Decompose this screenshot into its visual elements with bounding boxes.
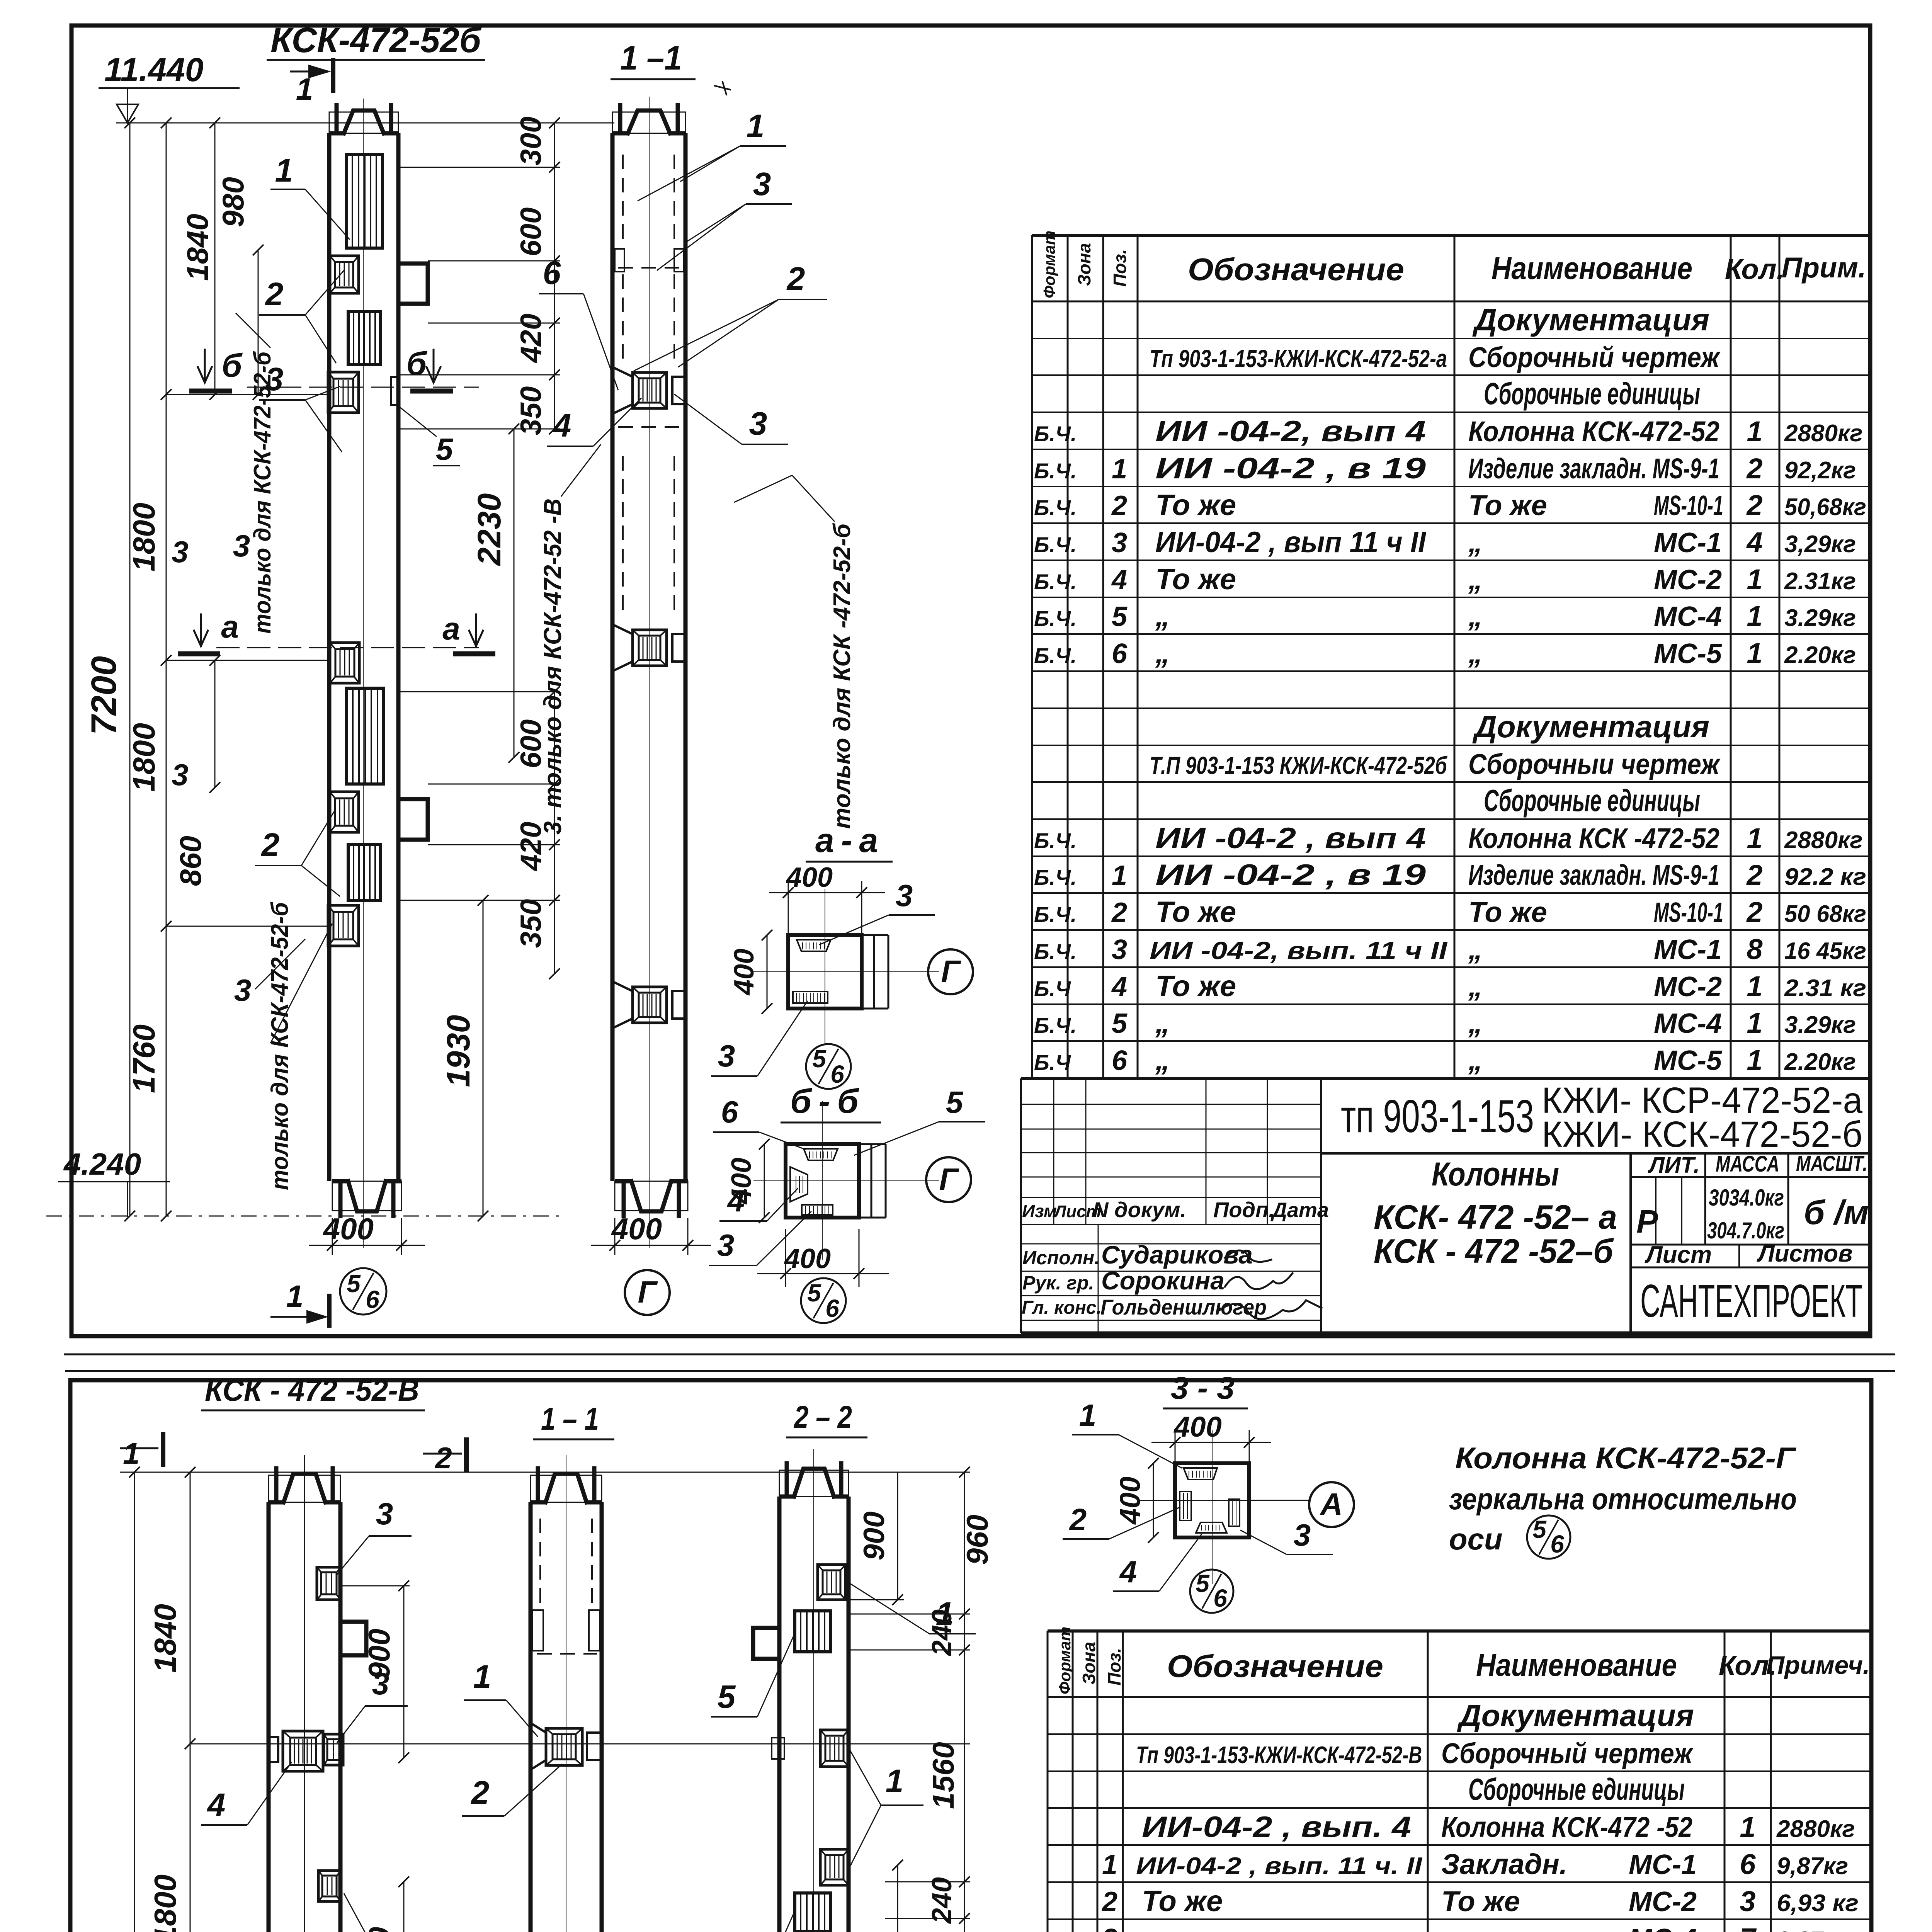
svg-text:Б.Ч.: Б.Ч. [1034,902,1077,927]
svg-text:9,87кг: 9,87кг [1777,1853,1848,1879]
svg-text:1: 1 [1747,563,1762,595]
svg-text:ИИ-04-2 , вып. 11 ч. II: ИИ-04-2 , вып. 11 ч. II [1136,1853,1423,1879]
section b-b square [786,1144,859,1218]
svg-text:2880кг: 2880кг [1784,827,1862,854]
plate pos5 hatched r1 [795,1611,831,1652]
embed plate MC pos3 level a [330,643,359,683]
svg-text:3 - 3: 3 - 3 [1171,1371,1235,1406]
svg-text:6,93 кг: 6,93 кг [1777,1890,1859,1917]
svg-text:Б.Ч.: Б.Ч. [1034,459,1077,483]
embed plate MS-9-1 pos1 lower [347,688,384,784]
hidden plate edges dashed mid [622,456,624,618]
svg-text:Наименование: Наименование [1492,251,1692,286]
svg-text:1: 1 [275,152,293,189]
svg-text:Б.Ч.: Б.Ч. [1034,828,1077,853]
svg-text:2: 2 [1069,1502,1087,1537]
svg-text:304.7.0кг: 304.7.0кг [1707,1218,1784,1243]
svg-text:2: 2 [1101,1886,1117,1917]
svg-text:„: „ [1155,637,1170,670]
svg-text:2230: 2230 [471,493,507,566]
svg-text:3. только для КСК-472-52 -В: 3. только для КСК-472-52 -В [539,498,566,835]
svg-text:Тп 903-1-153-КЖИ-КСК-472-52-В: Тп 903-1-153-КЖИ-КСК-472-52-В [1136,1742,1422,1769]
circle G b-b [926,1157,971,1202]
svg-text:420: 420 [515,314,548,364]
left dashed nick col3 [772,1738,784,1759]
svg-text:МС-5: МС-5 [1654,1045,1722,1076]
svg-text:900: 900 [858,1512,891,1561]
svg-text:Изделие закладн. MS-9-1: Изделие закладн. MS-9-1 [1468,859,1719,891]
svg-text:N докум.: N докум. [1093,1197,1186,1222]
list row [1738,1245,1740,1267]
column V centerline [304,1455,305,1932]
dim 400 3-3 left [1153,1463,1154,1537]
specification table sheet1 [1032,234,1870,237]
svg-text:6: 6 [1112,638,1128,669]
svg-text:МС-4: МС-4 [1654,601,1722,632]
embed plate pos2b upper [348,311,381,364]
svg-text:Исполн.: Исполн. [1022,1247,1100,1269]
svg-text:3: 3 [172,758,188,792]
svg-text:5: 5 [1112,1008,1128,1039]
circle 5/6 below column1 [340,1268,386,1315]
svg-text:ИИ -04-2 , в 19: ИИ -04-2 , в 19 [1155,859,1426,891]
svg-text:„: „ [1468,563,1483,595]
dim 980 [258,250,259,395]
svg-text:То же: То же [1155,489,1236,522]
svg-text:1: 1 [1112,454,1127,485]
svg-text:MS-10-1: MS-10-1 [1654,490,1723,521]
svg-text:Р: Р [1636,1203,1658,1240]
dim chain 1840-1800-1800-1760 sheet1 [166,123,167,1216]
dim chain right of column1 lower 600-420-350 [554,692,555,974]
dim 400 b-b left [764,1144,765,1218]
a-a hatched strip bottom left [793,992,828,1003]
svg-text:1: 1 [1747,415,1762,447]
svg-text:САНТЕХПРОЕКТ: САНТЕХПРОЕКТ [1640,1275,1862,1327]
3-3 hatched strip top [1184,1468,1217,1480]
svg-text:1: 1 [1112,860,1127,891]
svg-text:А: А [1320,1487,1343,1521]
svg-text:Обозначение: Обозначение [1188,252,1404,287]
plate level1 col2 s2 [531,1723,546,1770]
svg-text:3: 3 [718,1039,735,1073]
svg-text:2.31 кг: 2.31 кг [1784,975,1866,1002]
svg-text:Сборочныи чертеж: Сборочныи чертеж [1468,748,1721,780]
svg-text:1: 1 [473,1658,492,1695]
svg-text:Сборочный чертеж: Сборочный чертеж [1468,341,1721,373]
specification table sheet2 [1048,1629,1870,1633]
svg-text:„: „ [1155,600,1170,633]
svg-text:2: 2 [1111,897,1127,928]
plate right r1 col3 [818,1565,845,1600]
svg-text:1: 1 [123,1436,139,1470]
svg-text:1: 1 [1747,1044,1762,1076]
svg-text:3: 3 [233,529,250,563]
svg-text:Примеч.: Примеч. [1766,1651,1870,1679]
svg-text:400: 400 [323,1212,374,1246]
svg-text:То же: То же [1468,896,1547,928]
svg-text:Б.Ч.: Б.Ч. [1034,1013,1077,1037]
svg-text:5: 5 [807,1279,821,1307]
svg-text:1: 1 [1747,1007,1762,1039]
svg-text:6: 6 [1213,1584,1227,1612]
circle 5/6 between sections [806,1044,851,1089]
column V body [267,1502,271,1932]
svg-text:То же: То же [1155,563,1236,596]
leader 5 [398,406,437,437]
svg-text:Дата: Дата [1270,1199,1329,1222]
svg-text:МАССА: МАССА [1716,1151,1779,1177]
svg-text:2: 2 [1746,896,1762,928]
dim 400 a-a left [767,935,768,1009]
hidden plate edges dashed upper [622,155,624,247]
embed plate MS-10-1 pos2 upper [330,256,359,293]
b-b hatched strip bottom [802,1205,833,1215]
plate pos3 mid1 [318,1871,341,1901]
svg-text:6: 6 [825,1294,839,1322]
circle 5/6 3-3 [1190,1570,1233,1613]
svg-text:50,68кг: 50,68кг [1784,494,1866,520]
svg-text:ЛИТ.: ЛИТ. [1648,1153,1700,1178]
svg-text:Сборочные единицы: Сборочные единицы [1484,376,1700,411]
svg-text:МС-4: МС-4 [1654,1008,1722,1039]
svg-text:КЖИ- КСК-472-52-б: КЖИ- КСК-472-52-б [1542,1114,1862,1155]
svg-text:2: 2 [261,827,280,863]
svg-text:а: а [221,609,239,645]
svg-text:Б.Ч.: Б.Ч. [1034,939,1077,964]
svg-text:Листов: Листов [1757,1240,1853,1267]
svg-text:МС-1: МС-1 [1654,527,1722,558]
svg-text:92.2 кг: 92.2 кг [1784,864,1866,890]
svg-text:1560: 1560 [926,1742,960,1809]
dim 400 3-3 top [1175,1430,1176,1463]
svg-text:Сборочный чертеж: Сборочный чертеж [1441,1737,1694,1769]
svg-text:1930: 1930 [440,1015,476,1087]
svg-text:2: 2 [471,1774,490,1811]
svg-text:То же: То же [1155,970,1236,1003]
svg-text:„: „ [1468,637,1483,669]
svg-text:2: 2 [265,276,284,312]
svg-text:5: 5 [1196,1570,1210,1597]
embed plate MC pos3 lower2 [328,905,359,946]
svg-text:3: 3 [1740,1885,1755,1917]
svg-text:1: 1 [1079,1398,1097,1432]
svg-text:3: 3 [376,1497,393,1531]
svg-text:„: „ [1155,1044,1170,1077]
plate with side brackets level b [612,367,633,414]
svg-text:1 – 1: 1 – 1 [541,1401,599,1437]
column cap [329,112,398,133]
svg-text:3: 3 [1102,1923,1117,1932]
console notch right upper [398,264,428,304]
plate with side brackets lower [612,981,633,1028]
svg-text:3: 3 [753,166,771,202]
svg-text:5: 5 [1532,1515,1547,1543]
svg-text:только для КСК-472-52-б: только для КСК-472-52-б [267,901,293,1190]
nick pos5 on right edge [391,377,398,405]
svg-text:а-а: а-а [815,821,885,859]
svg-text:Подп.: Подп. [1213,1197,1275,1222]
svg-text:„: „ [1468,1044,1483,1076]
svg-text:2: 2 [1746,452,1762,485]
svg-text:5: 5 [812,1045,827,1073]
svg-text:240: 240 [927,1877,957,1924]
dim 1930 between columns [483,900,484,1216]
svg-text:Б.Ч.: Б.Ч. [1034,532,1077,557]
svg-text:9,87кг: 9,87кг [1777,1927,1848,1932]
svg-text:3: 3 [749,405,767,442]
svg-text:б: б [406,345,428,382]
column 1-1 s2 centerline [566,1455,566,1932]
svg-text:ИИ -04-2 , вып 4: ИИ -04-2 , вып 4 [1155,822,1426,855]
svg-text:—— „ ——: —— „ —— [1141,1922,1291,1932]
svg-text:Колонна КСК -472-52: Колонна КСК -472-52 [1468,822,1719,854]
title block revision rows [1021,1104,1321,1105]
svg-text:оси: оси [1449,1522,1503,1556]
svg-text:Поз.: Поз. [1104,1648,1124,1685]
svg-text:б: б [222,347,243,384]
column 1-1 s2 body [529,1502,533,1932]
column 1-1 base [615,1181,688,1211]
svg-text:8: 8 [1747,933,1763,965]
dim 1840 chain x556 [214,123,216,395]
svg-text:Б.Ч.: Б.Ч. [1034,495,1077,520]
svg-text:400: 400 [1173,1411,1221,1443]
svg-text:ИИ -04-2, вып. 11 ч II: ИИ -04-2, вып. 11 ч II [1150,937,1447,964]
svg-text:Изделие закладн. MS-9-1: Изделие закладн. MS-9-1 [1468,452,1719,485]
svg-text:6: 6 [1112,1045,1128,1076]
right dim chain outer col3 [964,1472,965,1932]
svg-text:Изм: Изм [1022,1201,1057,1221]
svg-text:600: 600 [515,207,548,257]
sheet separator lines [64,1354,1895,1355]
a-a centerlines [753,971,939,972]
dim 2230 between columns [514,429,515,757]
sheet 2 frame [70,1380,1871,1932]
svg-text:1800: 1800 [127,723,161,792]
svg-text:Б.Ч: Б.Ч [1034,1050,1071,1075]
lit mass scale grid [1629,1153,1632,1333]
svg-text:То же: То же [1155,896,1236,929]
b-b cut level line [247,387,479,388]
svg-text:ИИ -04-2, вып 4: ИИ -04-2, вып 4 [1155,415,1426,448]
svg-text:1: 1 [286,1279,304,1313]
svg-text:Формат: Формат [1056,1627,1074,1694]
svg-text:—— „ ——: —— „ —— [1441,1922,1586,1932]
svg-text:1: 1 [1747,637,1762,669]
svg-text:350: 350 [515,386,548,435]
column 2-2 body [777,1497,782,1932]
svg-text:5: 5 [946,1085,964,1119]
svg-text:Колонна КСК-472-52-Г: Колонна КСК-472-52-Г [1455,1441,1796,1475]
svg-text:5: 5 [347,1270,361,1298]
column 1-1 cap [612,112,685,133]
svg-text:Б.Ч.: Б.Ч. [1034,570,1077,594]
plate right r3 col3 [820,1849,849,1885]
3-3 hatched strip bottom [1196,1522,1227,1533]
svg-text:То же: То же [1441,1885,1520,1917]
svg-text:2880кг: 2880кг [1784,420,1862,447]
dim 900 right of col1 s2 [403,1586,405,1758]
svg-text:б-б: б-б [790,1082,866,1120]
svg-text:МС-5: МС-5 [1654,638,1722,669]
svg-text:Наименование: Наименование [1476,1648,1677,1683]
hidden dash under plate [618,426,680,428]
svg-text:МАСШТ.: МАСШТ. [1796,1151,1867,1175]
column body [327,133,332,1181]
column base [332,1181,401,1211]
svg-text:4: 4 [1111,971,1127,1002]
svg-text:4: 4 [727,1184,745,1218]
svg-text:50 68кг: 50 68кг [1784,901,1866,927]
svg-text:3: 3 [717,1228,735,1262]
svg-text:Документация: Документация [1472,303,1709,337]
svg-text:Колонны: Колонны [1432,1156,1559,1193]
svg-text:Г: Г [638,1275,658,1309]
title big box [1321,1152,1872,1155]
hidden dashed details col2 s2 top [532,1610,543,1651]
svg-text:3: 3 [172,535,188,569]
svg-text:1: 1 [747,108,765,144]
svg-text:6: 6 [1740,1848,1756,1880]
hidden level line dashed [618,267,680,269]
svg-text:Т.П 903-1-153 КЖИ-КСК-472-52б: Т.П 903-1-153 КЖИ-КСК-472-52б [1150,752,1448,779]
svg-text:860: 860 [173,836,207,886]
svg-text:Г: Г [939,1162,959,1196]
svg-text:900: 900 [362,1629,396,1679]
console notch right lower [398,799,428,840]
svg-text:Б.Ч.: Б.Ч. [1034,422,1077,446]
svg-text:МС-4: МС-4 [1629,1923,1697,1932]
svg-text:1 –1: 1 –1 [620,39,682,77]
dim 400 column1 bottom [332,1218,333,1255]
svg-text:3: 3 [1112,527,1127,558]
column 1-1 s2 cap [531,1475,602,1502]
person rows [1021,1243,1321,1245]
svg-text:5: 5 [1112,601,1128,632]
dim 400 b-b bottom [785,1229,786,1287]
column 2-2 centerline [813,1449,814,1932]
svg-text:6: 6 [366,1286,379,1313]
svg-text:6: 6 [721,1095,738,1129]
svg-text:2: 2 [786,260,805,297]
svg-text:МС-1: МС-1 [1629,1849,1697,1880]
plate with side brackets level a [612,624,633,671]
svg-text:Сборочные единицы: Сборочные единицы [1484,783,1700,818]
svg-text:МС-2: МС-2 [1654,565,1722,595]
left console bump col3 upper [753,1628,779,1659]
svg-text:2 – 2: 2 – 2 [793,1400,852,1435]
svg-text:400: 400 [1114,1476,1146,1525]
svg-text:5: 5 [718,1679,736,1715]
svg-text:11.440: 11.440 [104,51,204,88]
dim 400 column2 bottom [614,1218,616,1255]
circle A 3-3 [1309,1482,1354,1527]
b-b hatched wedge left [790,1167,808,1202]
svg-text:1: 1 [1102,1849,1117,1880]
svg-text:6: 6 [1550,1530,1564,1558]
svg-text:1: 1 [296,72,313,106]
svg-text:зеркальна относительно: зеркальна относительно [1449,1482,1797,1516]
svg-text:3: 3 [234,973,252,1007]
svg-text:„: „ [1468,1007,1483,1039]
section mark 1 bottom sheet1 [270,1316,326,1318]
3-3 hatched bar right [1229,1499,1240,1526]
svg-text:Тп 903-1-153-КЖИ-КСК-472-52-а: Тп 903-1-153-КЖИ-КСК-472-52-а [1150,345,1447,372]
svg-text:300: 300 [515,117,548,166]
svg-text:То же: То же [1142,1885,1223,1918]
svg-text:Зона: Зона [1074,243,1094,286]
svg-text:6: 6 [543,255,561,291]
svg-text:Г: Г [941,954,961,988]
svg-text:КСК - 472 -52–б: КСК - 472 -52–б [1374,1232,1614,1270]
svg-text:400: 400 [784,1243,831,1274]
svg-text:ИИ-04-2 , вып 11 ч II: ИИ-04-2 , вып 11 ч II [1155,526,1427,559]
svg-text:1840: 1840 [180,214,214,281]
svg-text:тп 903-1-153: тп 903-1-153 [1341,1090,1534,1142]
title block sheet1 [1021,1077,1872,1080]
svg-text:Рук. гр.: Рук. гр. [1022,1272,1094,1294]
b-b hatched strip top [804,1149,838,1160]
callout 3 leader line to note [734,475,792,502]
dim chain right of column1 upper 300-600-420-350 [554,123,555,375]
svg-text:Колонна КСК-472 -52: Колонна КСК-472 -52 [1441,1811,1692,1843]
svg-text:2: 2 [1746,489,1762,521]
3-3 hatched bar left [1180,1492,1191,1520]
svg-text:MS-10-1: MS-10-1 [1654,897,1723,928]
svg-text:2.20кг: 2.20кг [1784,1049,1856,1075]
plate pos4 level1 with right plate [283,1731,323,1771]
embed plate MC pos3 upper [328,372,359,413]
sheet 1 frame [71,26,1870,1336]
svg-text:Б.Ч: Б.Ч [1034,976,1071,1001]
level transfer lines sheet2 [190,1743,970,1745]
svg-text:7200: 7200 [84,656,124,735]
svg-text:2: 2 [434,1441,452,1475]
plate right r2 col3 [820,1730,849,1767]
plate pos3 top right edge [317,1567,341,1600]
svg-text:Лист: Лист [1645,1242,1712,1268]
plate pos5 hatched r2 [795,1893,831,1932]
svg-text:900: 900 [363,1927,396,1932]
svg-text:3: 3 [896,878,913,913]
svg-text:„: „ [1468,526,1483,558]
svg-text:Гл. конс.: Гл. конс. [1022,1298,1102,1318]
svg-text:МС-2: МС-2 [1654,971,1722,1002]
b-b centerlines [753,1180,939,1181]
svg-text:Колонна КСК-472-52: Колонна КСК-472-52 [1468,415,1719,447]
svg-text:Сборочные единицы: Сборочные единицы [1468,1772,1685,1806]
dim chain 7200 sheet2 [134,1472,135,1932]
svg-text:2.20кг: 2.20кг [1784,642,1856,668]
svg-text:3.29кг: 3.29кг [1784,1012,1856,1038]
svg-text:92,2кг: 92,2кг [1784,457,1856,484]
svg-text:2: 2 [1746,859,1762,891]
svg-text:Поз.: Поз. [1110,249,1130,287]
svg-text:„: „ [1468,933,1483,965]
svg-text:980: 980 [216,177,250,227]
section mark 2 top sheet2 [423,1453,462,1455]
svg-text:Формат: Формат [1040,231,1058,298]
svg-text:16 45кг: 16 45кг [1784,938,1866,964]
callout 3 lower [270,923,332,1043]
svg-text:1: 1 [1747,822,1762,854]
column 2-2 cap [779,1470,849,1497]
svg-text:1: 1 [886,1763,904,1799]
svg-text:7: 7 [1740,1922,1757,1932]
a-a cut level line [216,647,479,648]
svg-text:б /м: б /м [1804,1193,1869,1231]
